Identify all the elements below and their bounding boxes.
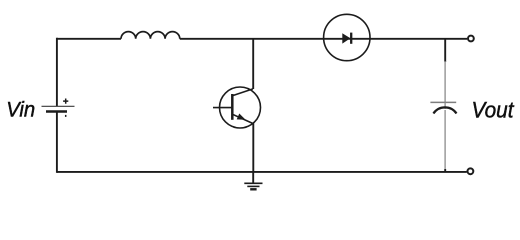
- wire capacitor upper lead (gray): [444, 61, 446, 102]
- wire left vertical (Vin + side): [56, 38, 58, 106]
- ground bar 2: [247, 185, 259, 187]
- wire capacitor bottom vertical: [444, 110, 446, 170]
- minus sign: [65, 115, 67, 117]
- transistor circle: [220, 87, 261, 128]
- capacitor bottom curved plate: [433, 107, 456, 113]
- wire collector vertical: [252, 39, 254, 89]
- ground bar 3: [250, 188, 256, 190]
- diode circle: [324, 14, 370, 60]
- capacitor lead stub: [444, 102, 446, 109]
- transistor Q1: [213, 87, 261, 128]
- wire bottom (ground rail): [57, 171, 467, 173]
- base stub wire: [213, 107, 232, 109]
- wire capacitor top vertical: [444, 39, 446, 62]
- wire top-left (battery + to inductor): [57, 38, 121, 40]
- svg-text:Vout: Vout: [472, 98, 515, 123]
- output terminal (bottom): [468, 168, 474, 174]
- battery positive plate: [42, 105, 75, 107]
- plus sign: [63, 99, 68, 104]
- diode D1: [324, 14, 370, 60]
- collector lead: [232, 89, 253, 96]
- base bar: [231, 94, 234, 120]
- wire emitter vertical: [252, 123, 254, 172]
- wire capacitor lower lead (black): [444, 169, 446, 172]
- battery Vin: [42, 99, 75, 117]
- ground: [244, 172, 262, 189]
- ground stem: [252, 172, 254, 183]
- diode cathode bar: [350, 33, 352, 44]
- wire top (inductor to output terminal, through diode): [180, 38, 467, 40]
- wire left vertical (Vin - side): [56, 112, 58, 173]
- inductor: [121, 32, 180, 39]
- capacitor C1: [430, 102, 456, 113]
- emitter lead: [232, 114, 253, 123]
- capacitor top plate: [430, 101, 456, 103]
- svg-text:Vin: Vin: [6, 97, 35, 121]
- output terminal (top): [468, 36, 474, 42]
- battery negative plate: [46, 110, 67, 113]
- diode anode triangle: [342, 33, 350, 43]
- ground bar 1: [244, 182, 262, 184]
- emitter arrow: [237, 114, 246, 120]
